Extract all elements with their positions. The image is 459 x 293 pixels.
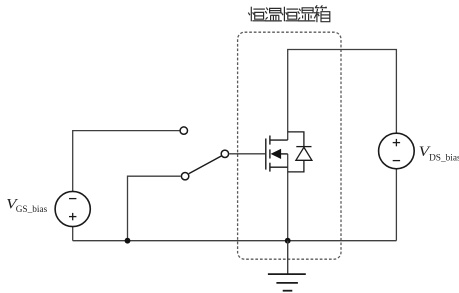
svg-text:GS_bias: GS_bias [16, 205, 48, 215]
svg-text:DS_bias: DS_bias [429, 153, 459, 163]
